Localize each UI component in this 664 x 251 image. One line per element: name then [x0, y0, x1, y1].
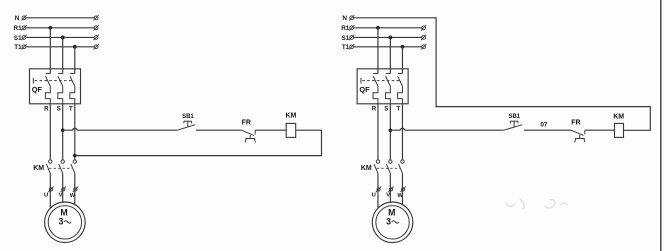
terminal R1 right (left): [94, 25, 99, 31]
label R (left): [44, 105, 49, 112]
coil KM (right): [615, 123, 624, 137]
wire V terminal to motor (left): [62, 191, 64, 203]
node N label (left): [15, 15, 20, 22]
svg-text:S1: S1: [342, 35, 350, 42]
wire U terminal to motor (left): [49, 191, 51, 209]
wire SB1 to FR (right): [524, 129, 571, 131]
svg-text:T1: T1: [342, 44, 350, 51]
svg-text:KM: KM: [613, 113, 624, 120]
junction control tap at S phase (right): [389, 128, 393, 132]
breaker QF label (left): [32, 85, 43, 94]
coil KM label (right): [613, 113, 624, 120]
svg-text:U: U: [44, 192, 48, 198]
wire T breaker to contactor (left): [74, 104, 76, 160]
wire R1 drop to breaker (left): [49, 28, 51, 69]
wire T breaker to contactor (right): [401, 104, 403, 160]
terminal T1 left (left): [21, 44, 26, 50]
breaker QF label (right): [359, 85, 370, 94]
contactor KM contact R (left): [46, 160, 52, 173]
wire control from S tap with hop over T (right): [390, 128, 503, 130]
wire S breaker to contactor (right): [389, 104, 391, 160]
terminal U (right): [376, 187, 381, 193]
terminal S1 right (left): [94, 35, 99, 41]
terminal T1 right (right): [421, 44, 426, 50]
pushbutton SB1 (right): [504, 121, 523, 130]
terminal W (right): [400, 187, 405, 193]
contactor KM contact R (right): [374, 160, 380, 173]
svg-text:KM: KM: [361, 165, 372, 172]
contactor KM contact T (right): [399, 160, 405, 173]
breaker QF pole T (left): [70, 69, 75, 104]
motor M 3~ (left): [45, 202, 86, 243]
svg-text:S1: S1: [14, 35, 22, 42]
junction control tap at S phase (left): [61, 128, 65, 132]
breaker QF pole R (left): [45, 69, 50, 104]
label W (left): [70, 193, 76, 199]
label W (right): [397, 193, 403, 199]
label V (left): [59, 193, 63, 199]
wire W terminal to motor (right): [401, 191, 403, 205]
junction R1 tap (left): [48, 26, 52, 30]
circuit breaker QF box (right): [357, 69, 408, 104]
terminal R1 right (right): [421, 25, 426, 31]
label T (right): [397, 105, 401, 112]
junction S1 tap (left): [61, 36, 65, 40]
contactor KM linkage dashed (right): [377, 167, 400, 169]
coil KM (left): [286, 123, 296, 137]
wire coil KM return to T phase (left): [75, 130, 322, 155]
label S (right): [384, 105, 388, 112]
wire R1 drop to breaker (right): [377, 28, 379, 69]
breaker QF linkage tick (left): [32, 78, 34, 84]
svg-text:FR: FR: [571, 119, 580, 126]
pushbutton SB1 (left): [177, 121, 195, 130]
contactor KM contact S (left): [59, 160, 65, 173]
contactor KM label (left): [33, 165, 44, 172]
svg-text:R: R: [44, 105, 49, 112]
label U (left): [44, 192, 48, 198]
wire R contactor to terminal (right): [377, 173, 379, 191]
wire bus S1 (left): [26, 36, 94, 38]
svg-text:KM: KM: [33, 165, 44, 172]
svg-text:3: 3: [58, 217, 63, 227]
breaker QF linkage dashed (right): [362, 80, 399, 82]
svg-text:R1: R1: [14, 25, 23, 32]
breaker QF pole S (left): [58, 69, 63, 104]
svg-text:S: S: [57, 105, 61, 112]
svg-text:S: S: [384, 105, 388, 112]
svg-text:QF: QF: [359, 85, 370, 94]
terminal S1 left (left): [21, 35, 26, 41]
wire T1 drop to breaker (right): [401, 47, 403, 69]
wire bus T1 (right): [354, 46, 422, 48]
wire control from S tap with hop over T (left): [63, 128, 178, 130]
breaker QF pole T (right): [398, 69, 403, 104]
wire FR to coil KM (left): [255, 129, 286, 131]
wire SB1 to FR (left): [196, 129, 242, 131]
wire S contactor to terminal (right): [389, 173, 391, 191]
svg-text:KM: KM: [285, 113, 296, 120]
wire bus R1 (left): [26, 27, 94, 29]
pushbutton SB1 label (left): [182, 114, 194, 120]
breaker QF pole S (right): [385, 69, 390, 104]
contactor KM label (right): [361, 165, 372, 172]
breaker QF linkage tick (right): [360, 78, 362, 84]
pushbutton SB1 label (right): [508, 114, 520, 120]
wire V terminal to motor (right): [389, 191, 391, 203]
junction T1 tap (left): [73, 45, 77, 49]
label R (right): [372, 105, 377, 112]
node R1 label (right): [341, 25, 350, 32]
contactor KM linkage dashed (left): [49, 167, 72, 169]
label V (right): [386, 193, 390, 199]
terminal N left (left): [21, 15, 26, 21]
breaker QF pole R (right): [373, 69, 378, 104]
contactor KM contact T (left): [71, 160, 77, 173]
wire T contactor to terminal (left): [74, 173, 76, 191]
wire S contactor to terminal (left): [62, 173, 64, 191]
coil KM label (left): [285, 113, 296, 120]
svg-text:SB1: SB1: [508, 114, 520, 120]
wire FR to coil KM (right): [585, 129, 615, 131]
wire R breaker to contactor (right): [377, 104, 379, 160]
label U (right): [372, 192, 376, 198]
svg-text:FR: FR: [242, 119, 251, 126]
wire bus T1 (left): [26, 46, 94, 48]
terminal T1 left (right): [349, 44, 354, 50]
wire bus R1 (right): [354, 27, 422, 29]
node S1 label (right): [342, 35, 350, 42]
junction R1 tap (right): [376, 26, 380, 30]
terminal R1 left (left): [21, 25, 26, 31]
wire W terminal to motor (left): [74, 191, 76, 205]
wire bus N / neutral feed (right): [354, 18, 651, 131]
wire S breaker to contactor (left): [62, 104, 64, 160]
label S (left): [57, 105, 61, 112]
image right border line: [660, 0, 662, 251]
terminal N right (left): [94, 15, 99, 21]
svg-text:T1: T1: [14, 44, 22, 51]
wire bus N (left): [26, 17, 94, 19]
svg-text:07: 07: [540, 121, 548, 128]
svg-text:V: V: [386, 193, 390, 199]
svg-text:SB1: SB1: [182, 114, 194, 120]
junction T1 tap (right): [401, 45, 405, 49]
circuit breaker QF box (left): [30, 69, 81, 104]
terminal R1 left (right): [349, 25, 354, 31]
terminal N left (right): [349, 15, 354, 21]
terminal S1 left (right): [349, 35, 354, 41]
wire T contactor to terminal (right): [401, 173, 403, 191]
svg-text:QF: QF: [32, 85, 43, 94]
thermal overload contact FR (left): [241, 130, 255, 142]
node T1 label (right): [342, 44, 350, 51]
contactor KM contact S (right): [386, 160, 392, 173]
wire U terminal to motor (right): [377, 191, 379, 209]
svg-text:R: R: [372, 105, 377, 112]
svg-text:U: U: [372, 192, 376, 198]
junction S1 tap (right): [388, 36, 392, 40]
wire S1 drop to breaker (right): [389, 37, 391, 68]
svg-text:T: T: [69, 105, 73, 112]
terminal U (left): [48, 187, 53, 193]
thermal overload contact FR (right): [571, 130, 585, 142]
thermal overload FR label (right): [571, 119, 580, 126]
terminal V (left): [61, 187, 66, 193]
motor M 3~ (right): [372, 202, 413, 243]
svg-text:T: T: [397, 105, 401, 112]
node R1 label (left): [14, 25, 23, 32]
junction return tap at T phase (left): [73, 154, 77, 158]
terminal T1 right (left): [94, 44, 99, 50]
terminal S1 right (right): [421, 35, 426, 41]
label T (left): [69, 105, 73, 112]
breaker QF linkage dashed (left): [35, 80, 72, 82]
node S1 label (left): [14, 35, 22, 42]
wire R breaker to contactor (left): [49, 104, 51, 160]
faint watermark (decorative-light): [506, 199, 568, 209]
label wire number 07 (right): [540, 121, 548, 128]
terminal V (right): [388, 187, 393, 193]
svg-text:R1: R1: [341, 25, 350, 32]
svg-text:N: N: [15, 15, 20, 22]
svg-text:3: 3: [386, 217, 391, 227]
wire S1 drop to breaker (left): [62, 37, 64, 68]
thermal overload FR label (left): [242, 119, 251, 126]
svg-text:N: N: [342, 15, 347, 22]
node N label (right): [342, 15, 347, 22]
wire bus S1 (right): [354, 36, 422, 38]
wire R contactor to terminal (left): [49, 173, 51, 191]
svg-text:V: V: [59, 193, 63, 199]
node T1 label (left): [14, 44, 22, 51]
terminal W (left): [73, 187, 78, 193]
wire T1 drop to breaker (left): [74, 47, 76, 69]
